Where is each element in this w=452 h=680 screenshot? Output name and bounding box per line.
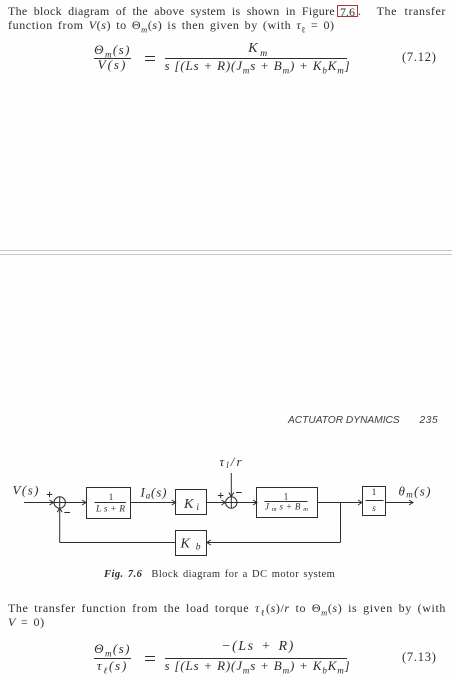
figure caption: [104, 569, 335, 580]
svg-text:s: s: [372, 504, 376, 514]
equation 7.13 LHS numerator Theta_m(s): [94, 642, 131, 655]
wire feedback up into S1: [57, 508, 62, 542]
summing junction S1: [47, 492, 70, 513]
svg-text:1: 1: [372, 488, 377, 498]
summing junction S2: [218, 493, 242, 509]
equation 7.12 equals sign: [145, 56, 155, 57]
paragraph 2 line 1: [8, 601, 446, 616]
equation 7.12 LHS fraction bar: [94, 58, 131, 59]
paragraph 2 line 2: [8, 615, 45, 630]
equation number 7.12: [402, 50, 437, 65]
svg-text:Jms+Bm: Jms+Bm: [265, 502, 308, 514]
equation 7.13 LHS denominator tau_l(s): [94, 659, 131, 672]
svg-text:1: 1: [109, 493, 114, 503]
block Ki: [176, 490, 207, 515]
wire block1 to block Ki with label Ia(s): [131, 485, 176, 506]
svg-text:Ki: Ki: [183, 497, 199, 513]
wire S2 to block 1/(Jms+Bm): [237, 500, 257, 505]
wire Ki to summing junction S2: [207, 500, 226, 505]
page separator rule 2: [0, 254, 452, 255]
block diagram figure 7.6: [0, 440, 452, 565]
block 1/(Ls+R): [87, 488, 131, 519]
wire output with arrowhead: [386, 500, 413, 505]
paragraph 1 line 1: [8, 4, 446, 19]
running head ACTUATOR DYNAMICS: [288, 415, 400, 426]
wire tau input down into S2: [229, 473, 234, 497]
node tau_l/r load torque label: [220, 454, 243, 470]
equation 7.13 RHS fraction bar: [165, 658, 347, 659]
wire feedback branch down: [340, 503, 342, 543]
equation 7.13 LHS fraction bar: [94, 658, 131, 659]
paragraph 1 line 2: [8, 18, 335, 33]
running head page number 235: [420, 415, 439, 426]
wire block3 to block 1/s: [318, 500, 362, 505]
wire S1 to block 1/(Ls+R): [65, 500, 86, 505]
equation number 7.13: [402, 650, 437, 665]
equation 7.13 RHS numerator -(Ls+R): [203, 640, 313, 654]
equation 7.13 equals sign: [145, 656, 155, 657]
equation 7.12 LHS denominator V(s): [94, 58, 131, 71]
block Kb: [176, 531, 207, 556]
wire feedback to Kb: [207, 540, 341, 545]
svg-text:Ia(s): Ia(s): [140, 485, 167, 501]
svg-text:θm(s): θm(s): [399, 484, 431, 500]
svg-text:Ls+R: Ls+R: [95, 505, 125, 515]
equation 7.12 RHS numerator Km: [204, 42, 314, 56]
page separator rule 1: [0, 250, 452, 251]
equation 7.12 RHS denominator: [165, 59, 351, 72]
svg-text:τl/r: τl/r: [220, 454, 243, 470]
wire Kb output left: [60, 542, 176, 544]
node V(s) input label: [13, 483, 39, 498]
block 1/s integrator: [363, 487, 386, 516]
equation 7.13 RHS denominator: [165, 659, 351, 672]
svg-text:Kb: Kb: [180, 537, 201, 553]
equation 7.12 RHS fraction bar: [165, 58, 347, 59]
svg-text:V(s): V(s): [13, 483, 39, 498]
block 1/(Jms+Bm): [257, 488, 318, 518]
node theta_m(s) output label: [399, 484, 431, 500]
equation 7.12 LHS numerator Theta_m(s): [94, 43, 131, 56]
wire input to summing junction S1: [24, 500, 54, 505]
